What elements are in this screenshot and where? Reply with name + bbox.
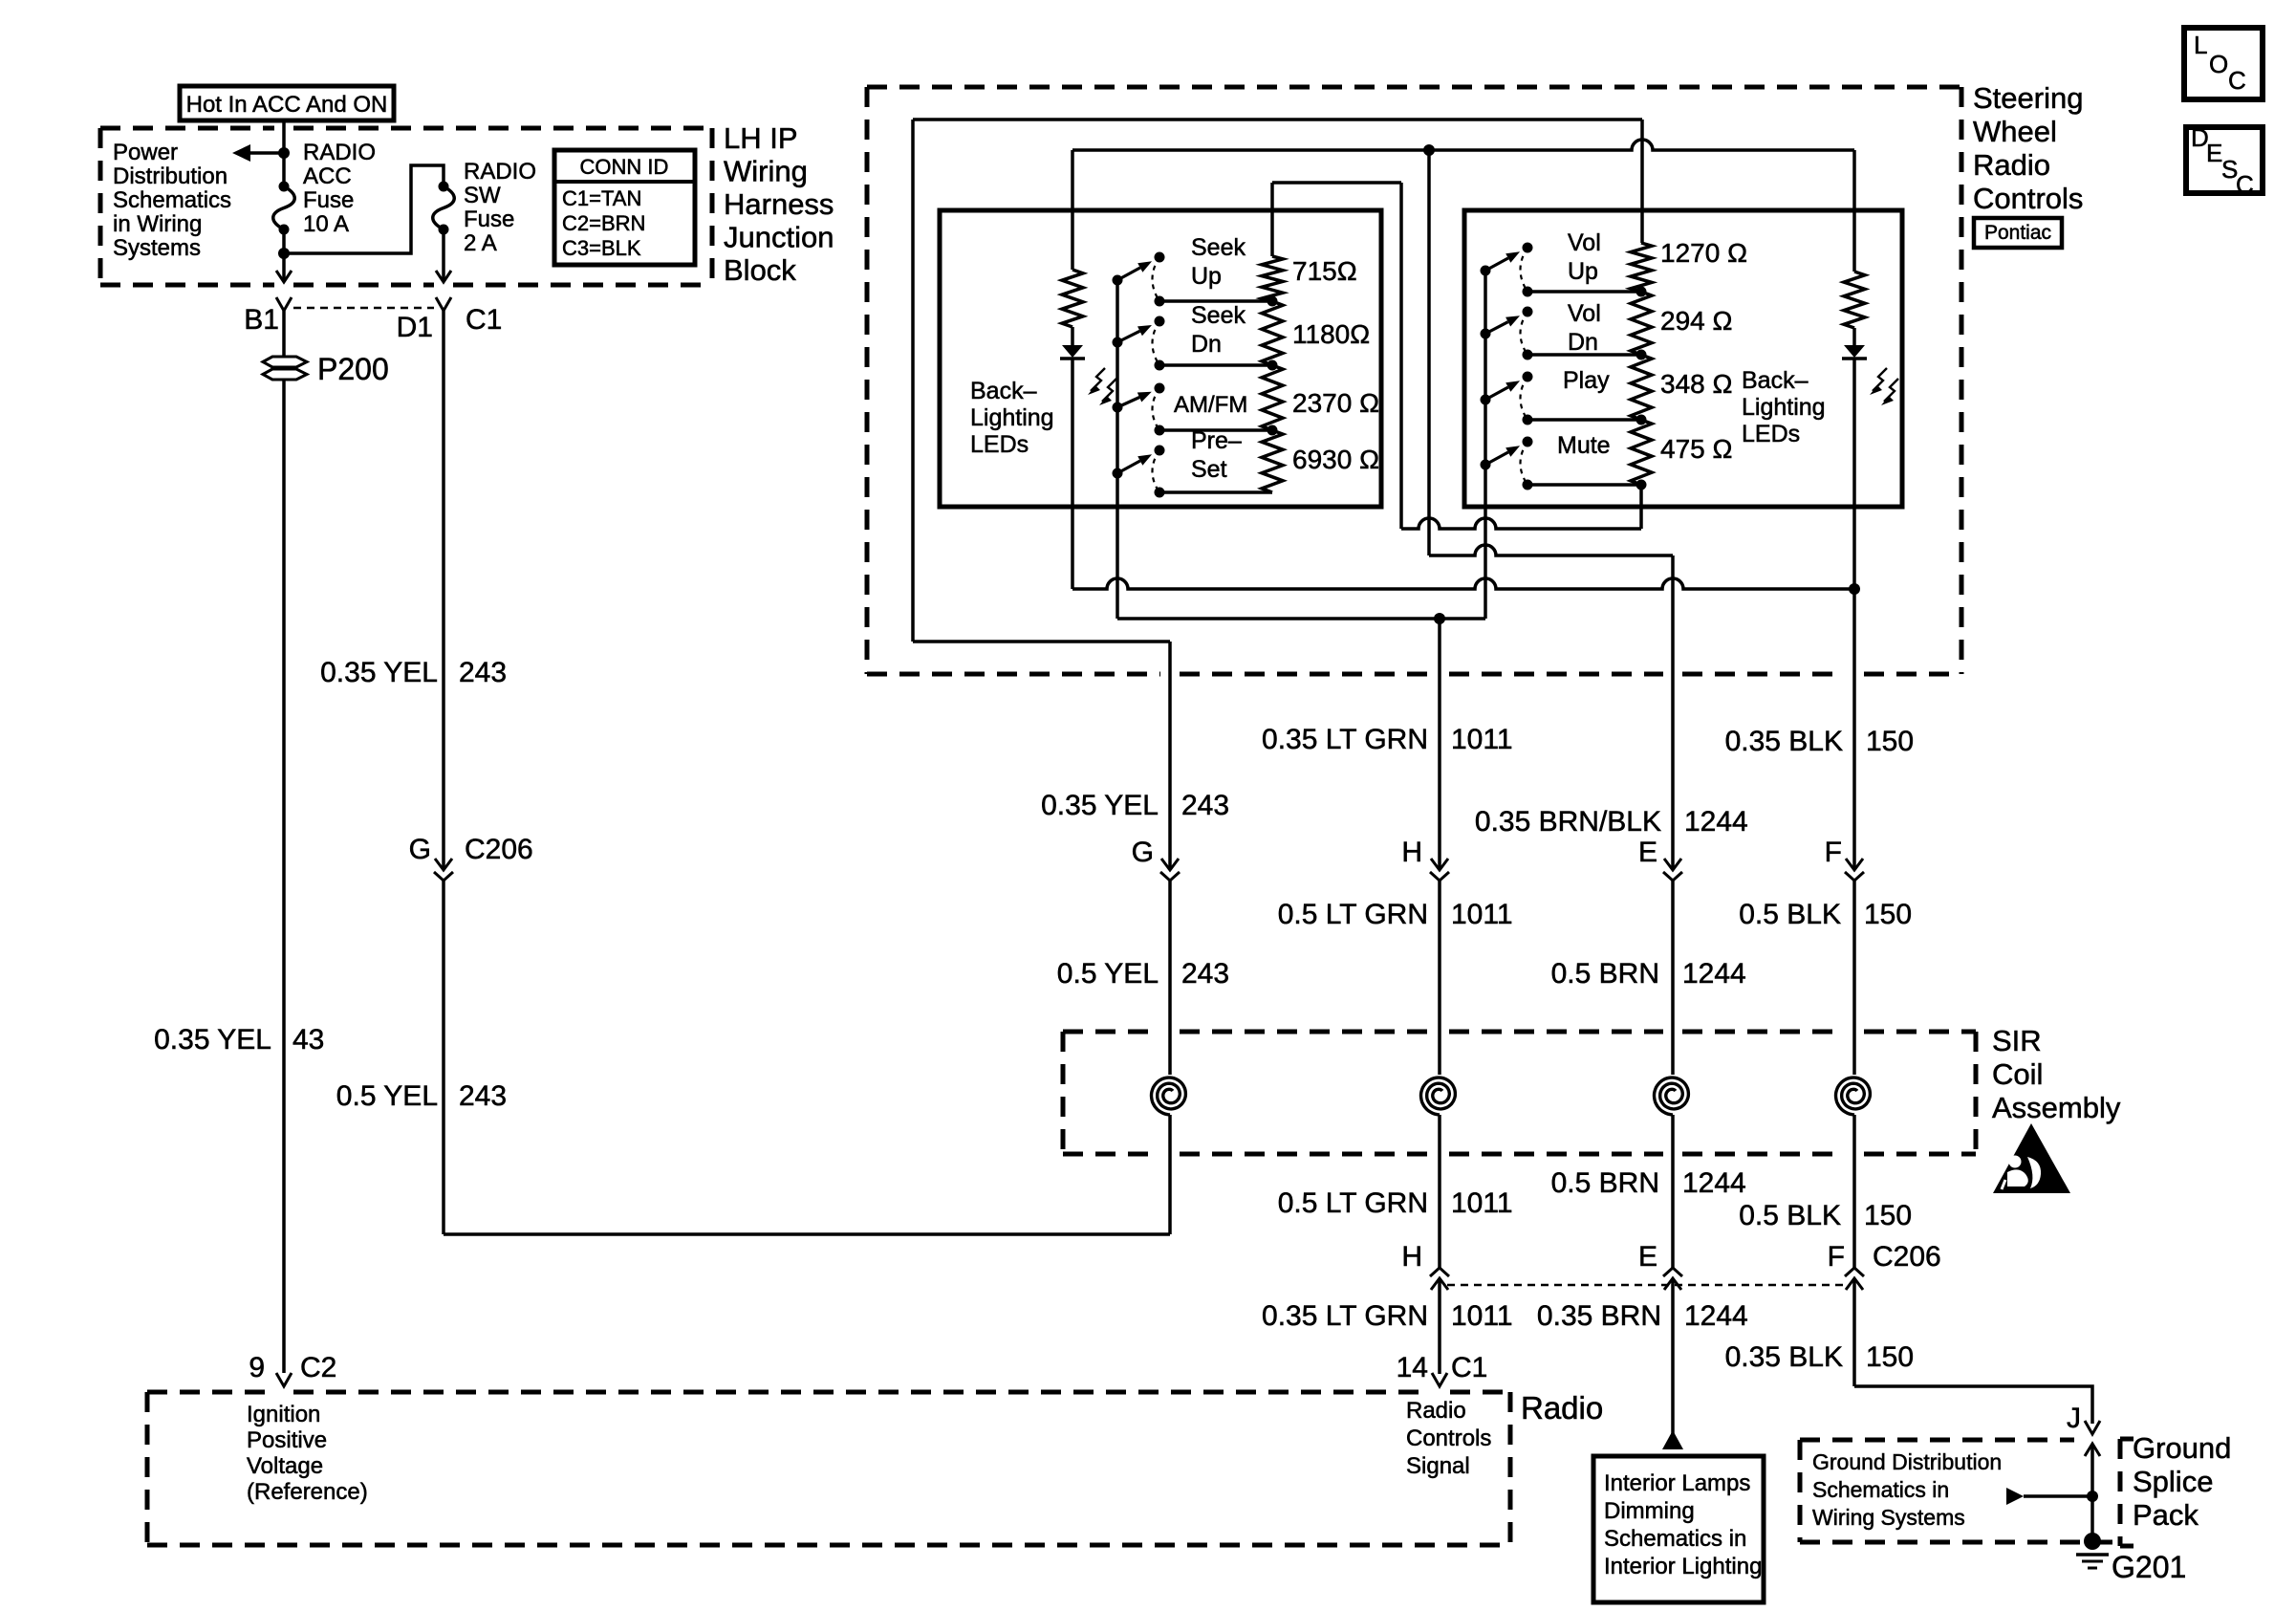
wire 0.35 BLK 150 (F to ground splice) [1852,1278,1856,1386]
svg-text:Signal: Signal [1406,1453,1470,1479]
splice P200 [263,352,389,386]
svg-text:Power: Power [113,140,178,165]
svg-text:Schematics in: Schematics in [1604,1526,1746,1552]
wire from Hot In ACC feed down to RADIO ACC fuse [282,120,286,186]
wire F below coil [1852,1115,1856,1268]
svg-text:SIR: SIR [1992,1024,2042,1057]
svg-text:0.35 YEL: 0.35 YEL [320,657,438,688]
switch Seek Dn [1113,337,1123,348]
svg-text:Pack: Pack [2133,1498,2199,1532]
svg-text:150: 150 [1866,726,1914,757]
svg-text:Harness: Harness [724,187,834,221]
wire E below coil [1671,1115,1675,1268]
connector C2 pin 9 [276,1373,292,1386]
svg-text:Systems: Systems [113,235,201,261]
resistor 715 ohm [1262,256,1283,301]
svg-text:Ignition: Ignition [247,1402,320,1427]
svg-text:Dn: Dn [1568,329,1598,356]
switch output row wires (volume) [1527,290,1641,294]
svg-text:Interior Lighting: Interior Lighting [1604,1554,1762,1579]
wire volume resistor chain feed (crosses Y2) [1640,120,1644,243]
svg-text:Assembly: Assembly [1992,1091,2121,1124]
connector fork B1 [276,297,292,311]
wire LED left cathode [1071,359,1074,589]
svg-text:0.35 BRN: 0.35 BRN [1537,1300,1661,1332]
svg-text:475 Ω: 475 Ω [1660,434,1732,464]
svg-text:150: 150 [1866,1341,1914,1373]
locator box LOC [2184,28,2263,99]
svg-text:Radio: Radio [1521,1390,1603,1426]
wire column G 0.35 YEL 243 [1168,642,1172,870]
junction node to Power Distribution Schematics [278,147,290,159]
svg-text:C2=BRN: C2=BRN [562,211,645,235]
svg-text:Block: Block [724,253,796,287]
svg-text:F: F [1828,1241,1845,1273]
wire branch to RADIO SW fuse [284,165,444,253]
svg-text:in Wiring: in Wiring [113,211,202,237]
svg-text:294 Ω: 294 Ω [1660,306,1732,336]
svg-text:348 Ω: 348 Ω [1660,369,1732,399]
svg-text:9: 9 [249,1352,265,1383]
junction dot column H tap [1434,613,1445,624]
wire 0.35 YEL 243 from C1 to C206-G [442,311,445,870]
wire to ground distribution schematics [2024,1494,2092,1498]
svg-text:Pontiac: Pontiac [1984,222,2051,244]
connector pin H steering wheel [1431,859,1448,870]
connector C206 pin E [1663,1268,1682,1276]
bus wire Y2: backlighting LED feed [1072,140,1854,150]
switch Mute [1481,460,1491,470]
resistor 1180 ohm [1262,301,1283,365]
radio function switch assembly box [940,210,1381,507]
svg-text:Radio: Radio [1406,1398,1466,1424]
switch common wire (volume) [1484,271,1487,619]
svg-text:6930 Ω: 6930 Ω [1292,445,1379,474]
junction dot 1270/294 [1636,287,1647,297]
svg-text:Schematics: Schematics [113,187,231,213]
SIR coil F [1836,1078,1871,1115]
wire H below coil [1438,1115,1441,1268]
fuse RADIO SW 2 A [439,182,449,192]
svg-text:Lighting: Lighting [1742,394,1826,421]
label box "Hot In ACC And ON" [180,86,394,120]
Ground Distribution Schematics dashed box [1800,1438,2074,1443]
svg-text:RADIO: RADIO [303,140,376,165]
svg-text:Fuse: Fuse [464,207,514,232]
switch Vol Dn [1481,329,1491,339]
Steering Wheel Radio Controls dashed box [867,85,1961,90]
connector fork J [2085,1421,2100,1434]
svg-text:0.35 LT GRN: 0.35 LT GRN [1262,724,1428,755]
svg-text:Up: Up [1568,258,1598,285]
svg-text:1270 Ω: 1270 Ω [1660,238,1747,268]
svg-text:Seek: Seek [1191,302,1245,329]
LED backlight left [1071,327,1074,345]
wire below RADIO ACC fuse [282,229,286,282]
svg-text:1244: 1244 [1682,958,1746,990]
svg-text:Coil: Coil [1992,1057,2043,1091]
wire 0.35 LT GRN 1011 (H to radio) [1438,1278,1441,1374]
connector arrow C1/D1 (junction block output) [436,271,451,282]
resistor backlight LED left [1062,270,1083,327]
ground symbol G201 [2076,1553,2109,1557]
svg-text:1011: 1011 [1451,724,1513,755]
switch AM/FM [1113,403,1123,413]
switch Seek Up [1113,275,1123,286]
svg-text:Back–: Back– [1742,367,1809,394]
locator box DESC [2186,127,2263,193]
svg-text:0.35 LT GRN: 0.35 LT GRN [1262,1300,1428,1332]
svg-text:43: 43 [292,1024,324,1056]
connector C206 pin F [1845,1268,1864,1276]
svg-text:G201: G201 [2112,1550,2186,1584]
svg-text:14: 14 [1397,1352,1428,1383]
svg-text:C3=BLK: C3=BLK [562,236,641,260]
connector pin G steering wheel [1161,859,1179,870]
connector C1 pin 14 (radio) [1432,1373,1447,1386]
svg-text:B1: B1 [244,304,279,336]
svg-text:RADIO: RADIO [464,159,536,185]
junction dot LED cathode bus at column F [1849,583,1860,595]
svg-text:Interior Lamps: Interior Lamps [1604,1470,1750,1496]
svg-text:Positive: Positive [247,1427,327,1453]
svg-text:E: E [1638,837,1657,868]
junction dot 1180/2370 [1267,360,1278,371]
switch common wire (radio functions) [1116,280,1119,619]
off-page triangle to interior lamps dimming [1662,1430,1683,1449]
wire 0.35 YEL 43 from B1 to C2 (ignition reference) [282,311,286,1373]
connector C206 pin G (left) [435,859,452,870]
svg-text:C1: C1 [1451,1352,1487,1383]
svg-text:C1: C1 [466,304,502,336]
resistor chain feed (radio) [1270,247,1274,256]
svg-text:Back–: Back– [970,378,1037,404]
svg-text:Ground Distribution: Ground Distribution [1812,1449,2002,1474]
svg-text:0.35 BLK: 0.35 BLK [1725,726,1843,757]
CONN ID table [554,150,695,265]
wire column F 0.35 BLK 150 [1852,589,1856,870]
svg-text:ACC: ACC [303,163,352,189]
wire 0.5 YEL 243 from C206-G to SIR coil G [442,881,445,1234]
svg-text:Radio: Radio [1973,148,2050,182]
svg-text:0.5 BLK: 0.5 BLK [1739,899,1841,930]
junction dot 294/348 [1636,350,1647,360]
svg-text:C2: C2 [300,1352,336,1383]
resistor 475 ohm [1631,420,1652,485]
resistor 6930 ohm [1262,430,1283,492]
connector pin E steering wheel [1664,859,1681,870]
wire 0.5 LT GRN 1011 (H into SIR) [1438,881,1441,1075]
svg-text:Play: Play [1563,367,1610,394]
svg-text:Steering: Steering [1973,81,2083,115]
svg-text:Voltage: Voltage [247,1453,323,1479]
junction dot 348/475 [1636,415,1647,425]
svg-text:1244: 1244 [1684,806,1748,838]
svg-text:0.35 BRN/BLK: 0.35 BRN/BLK [1475,806,1661,838]
svg-text:Seek: Seek [1191,234,1245,261]
svg-text:Set: Set [1191,456,1227,483]
SIR Coil Assembly dashed box [1063,1030,1160,1034]
resistor 348 ohm [1631,355,1652,420]
svg-text:715Ω: 715Ω [1292,256,1357,286]
Interior Lamps Dimming Schematics in Interior Lighting box [1593,1456,1764,1602]
svg-text:L: L [2194,31,2207,59]
fuse RADIO ACC 10 A [279,182,290,192]
svg-text:10 A: 10 A [303,211,349,237]
junction dot 2370/6930 [1267,425,1278,436]
svg-text:C: C [2228,66,2246,95]
svg-text:0.35 YEL: 0.35 YEL [154,1024,271,1056]
svg-text:243: 243 [459,657,507,688]
svg-text:Wheel: Wheel [1973,115,2057,148]
wire column H 0.35 LT GRN 1011 [1438,619,1441,870]
svg-text:0.35 YEL: 0.35 YEL [1041,790,1159,821]
SIR warning triangle (airbag) [1993,1123,2070,1193]
svg-text:2370 Ω: 2370 Ω [1292,388,1379,418]
svg-text:0.5 BLK: 0.5 BLK [1739,1200,1841,1231]
svg-text:LH IP: LH IP [724,121,798,155]
svg-text:H: H [1401,1241,1422,1273]
Radio dashed box (Ignition Positive Voltage / Radio Controls Signal) [147,1390,274,1395]
svg-text:Wiring: Wiring [724,155,808,188]
dashed connector link B1-D1 [293,307,434,310]
SIR coil H [1421,1078,1456,1115]
svg-text:F: F [1825,837,1842,868]
svg-text:1244: 1244 [1682,1167,1746,1199]
svg-text:0.5 BRN: 0.5 BRN [1551,958,1659,990]
svg-text:0.5 YEL: 0.5 YEL [336,1080,438,1112]
connector fork D1 C1 [436,297,451,311]
SIR coil G [1152,1078,1186,1115]
wire LED right cathode [1852,359,1856,589]
svg-text:Lighting: Lighting [970,404,1054,431]
svg-text:2 A: 2 A [464,230,497,256]
svg-text:LEDs: LEDs [1742,421,1800,447]
svg-text:Mute: Mute [1557,432,1611,459]
connector C206 pin H [1430,1268,1449,1276]
svg-text:Controls: Controls [1406,1426,1491,1451]
svg-text:E: E [1638,1241,1657,1273]
svg-text:Dn: Dn [1191,331,1222,358]
svg-text:0.5 YEL: 0.5 YEL [1057,958,1159,990]
wire 0.5 BLK 150 (F into SIR) [1852,881,1856,1075]
svg-text:H: H [1401,837,1422,868]
svg-text:LEDs: LEDs [970,431,1029,458]
svg-text:150: 150 [1864,899,1912,930]
junction dot volume chain bottom [1636,480,1647,490]
LH IP Wiring Harness Junction Block dashed box [100,126,274,131]
backlighting LED branch (left) feed wire [1071,150,1074,270]
switch output row wires (radio) [1159,299,1272,303]
svg-text:G: G [1132,837,1154,868]
Ground Splice Pack dashed edge [2118,1439,2123,1546]
junction dot feeding RADIO SW fuse [278,248,290,259]
wire column E 0.35 BRN/BLK 1244 [1671,555,1675,870]
wire LED feed drop to column E [1427,150,1431,555]
wire H2 to column E (hops volume common) [1429,545,1673,555]
wire 0.35 BRN 1244 (E to interior lamps dimming) [1671,1278,1675,1434]
resistor 1270 ohm [1631,243,1652,292]
svg-text:1011: 1011 [1451,1300,1513,1332]
switch Pre-Set [1113,468,1123,479]
svg-text:Splice: Splice [2133,1465,2213,1498]
svg-text:AM/FM: AM/FM [1174,392,1247,418]
dashed connector link C206 H-E-F [1447,1284,1847,1287]
ground splice ball G201 [2084,1533,2101,1550]
svg-text:P200: P200 [317,352,389,386]
bus wire Y3: radio chain top to volume chain bottom [1272,181,1401,185]
svg-text:C1=TAN: C1=TAN [562,186,641,210]
connector arrow B1 (junction block output) [276,271,292,282]
svg-text:Vol: Vol [1568,229,1601,256]
junction dot ground distribution tap [2087,1491,2098,1502]
svg-text:Junction: Junction [724,221,834,254]
label box Pontiac [1974,218,2062,248]
connector pin F steering wheel [1846,859,1863,870]
wire H1 chain-link (hops E drop and volume common) [1401,518,1641,529]
svg-text:Vol: Vol [1568,300,1601,327]
LED right emission arrows [1873,368,1887,391]
junction dot 715/1180 [1267,296,1278,307]
svg-text:(Reference): (Reference) [247,1479,368,1505]
resistor 2370 ohm [1262,365,1283,430]
svg-text:150: 150 [1864,1200,1912,1231]
svg-text:Schematics in: Schematics in [1812,1477,1949,1502]
svg-text:Distribution: Distribution [113,163,227,189]
svg-text:CONN ID: CONN ID [580,155,669,179]
svg-text:243: 243 [459,1080,507,1112]
svg-text:1244: 1244 [1684,1300,1748,1332]
svg-text:Fuse: Fuse [303,187,354,213]
SIR coil E [1655,1078,1689,1115]
svg-text:C206: C206 [465,834,533,865]
wire below RADIO SW fuse [442,229,445,282]
svg-text:Ground: Ground [2133,1431,2231,1465]
resistor backlight LED right [1844,272,1865,328]
svg-text:0.35 BLK: 0.35 BLK [1725,1341,1843,1373]
wire H3 LED cathodes to column F (hops commons and column E) [1072,578,1854,589]
wire 0.5 BRN 1244 (E into SIR) [1671,881,1675,1075]
svg-text:Wiring Systems: Wiring Systems [1812,1505,1965,1530]
backlighting LED branch (right) feed wire [1852,150,1856,272]
svg-text:Dimming: Dimming [1604,1498,1695,1524]
switch Play [1481,395,1491,405]
svg-text:Up: Up [1191,263,1222,290]
resistor 294 ohm [1631,292,1652,355]
svg-text:0.5 BRN: 0.5 BRN [1551,1167,1659,1199]
LED backlight right [1852,328,1856,345]
svg-text:243: 243 [1181,958,1229,990]
volume switch assembly box [1464,210,1902,507]
svg-text:0.5 LT GRN: 0.5 LT GRN [1278,1187,1428,1219]
svg-text:SW: SW [464,183,501,208]
svg-text:G: G [409,834,431,865]
wire G below coil [1168,1115,1172,1234]
svg-text:C206: C206 [1873,1241,1941,1273]
svg-text:Controls: Controls [1973,182,2083,215]
wire J to G201 splice [2090,1444,2094,1539]
svg-text:243: 243 [1181,790,1229,821]
bus wire Y1: volume chain top to column G [913,118,1642,121]
junction dot LED feed to column E [1423,144,1435,156]
svg-text:J: J [2067,1403,2081,1434]
svg-text:1180Ω: 1180Ω [1292,319,1370,349]
svg-text:Hot In ACC And ON: Hot In ACC And ON [186,92,388,118]
svg-text:1011: 1011 [1451,1187,1513,1219]
svg-text:O: O [2209,50,2228,78]
svg-text:1011: 1011 [1451,899,1513,930]
svg-text:0.5 LT GRN: 0.5 LT GRN [1278,899,1428,930]
svg-text:D1: D1 [397,312,433,343]
switch Vol Up [1481,266,1491,276]
svg-text:C: C [2236,170,2254,199]
connector arrow J (splice pack side) [2085,1444,2100,1456]
wire H4 switch commons to column H [1117,617,1485,620]
wire 0.5 YEL 243 (G into SIR) [1168,881,1172,1075]
svg-text:E: E [2206,139,2222,167]
LED left emission arrows [1091,368,1105,391]
